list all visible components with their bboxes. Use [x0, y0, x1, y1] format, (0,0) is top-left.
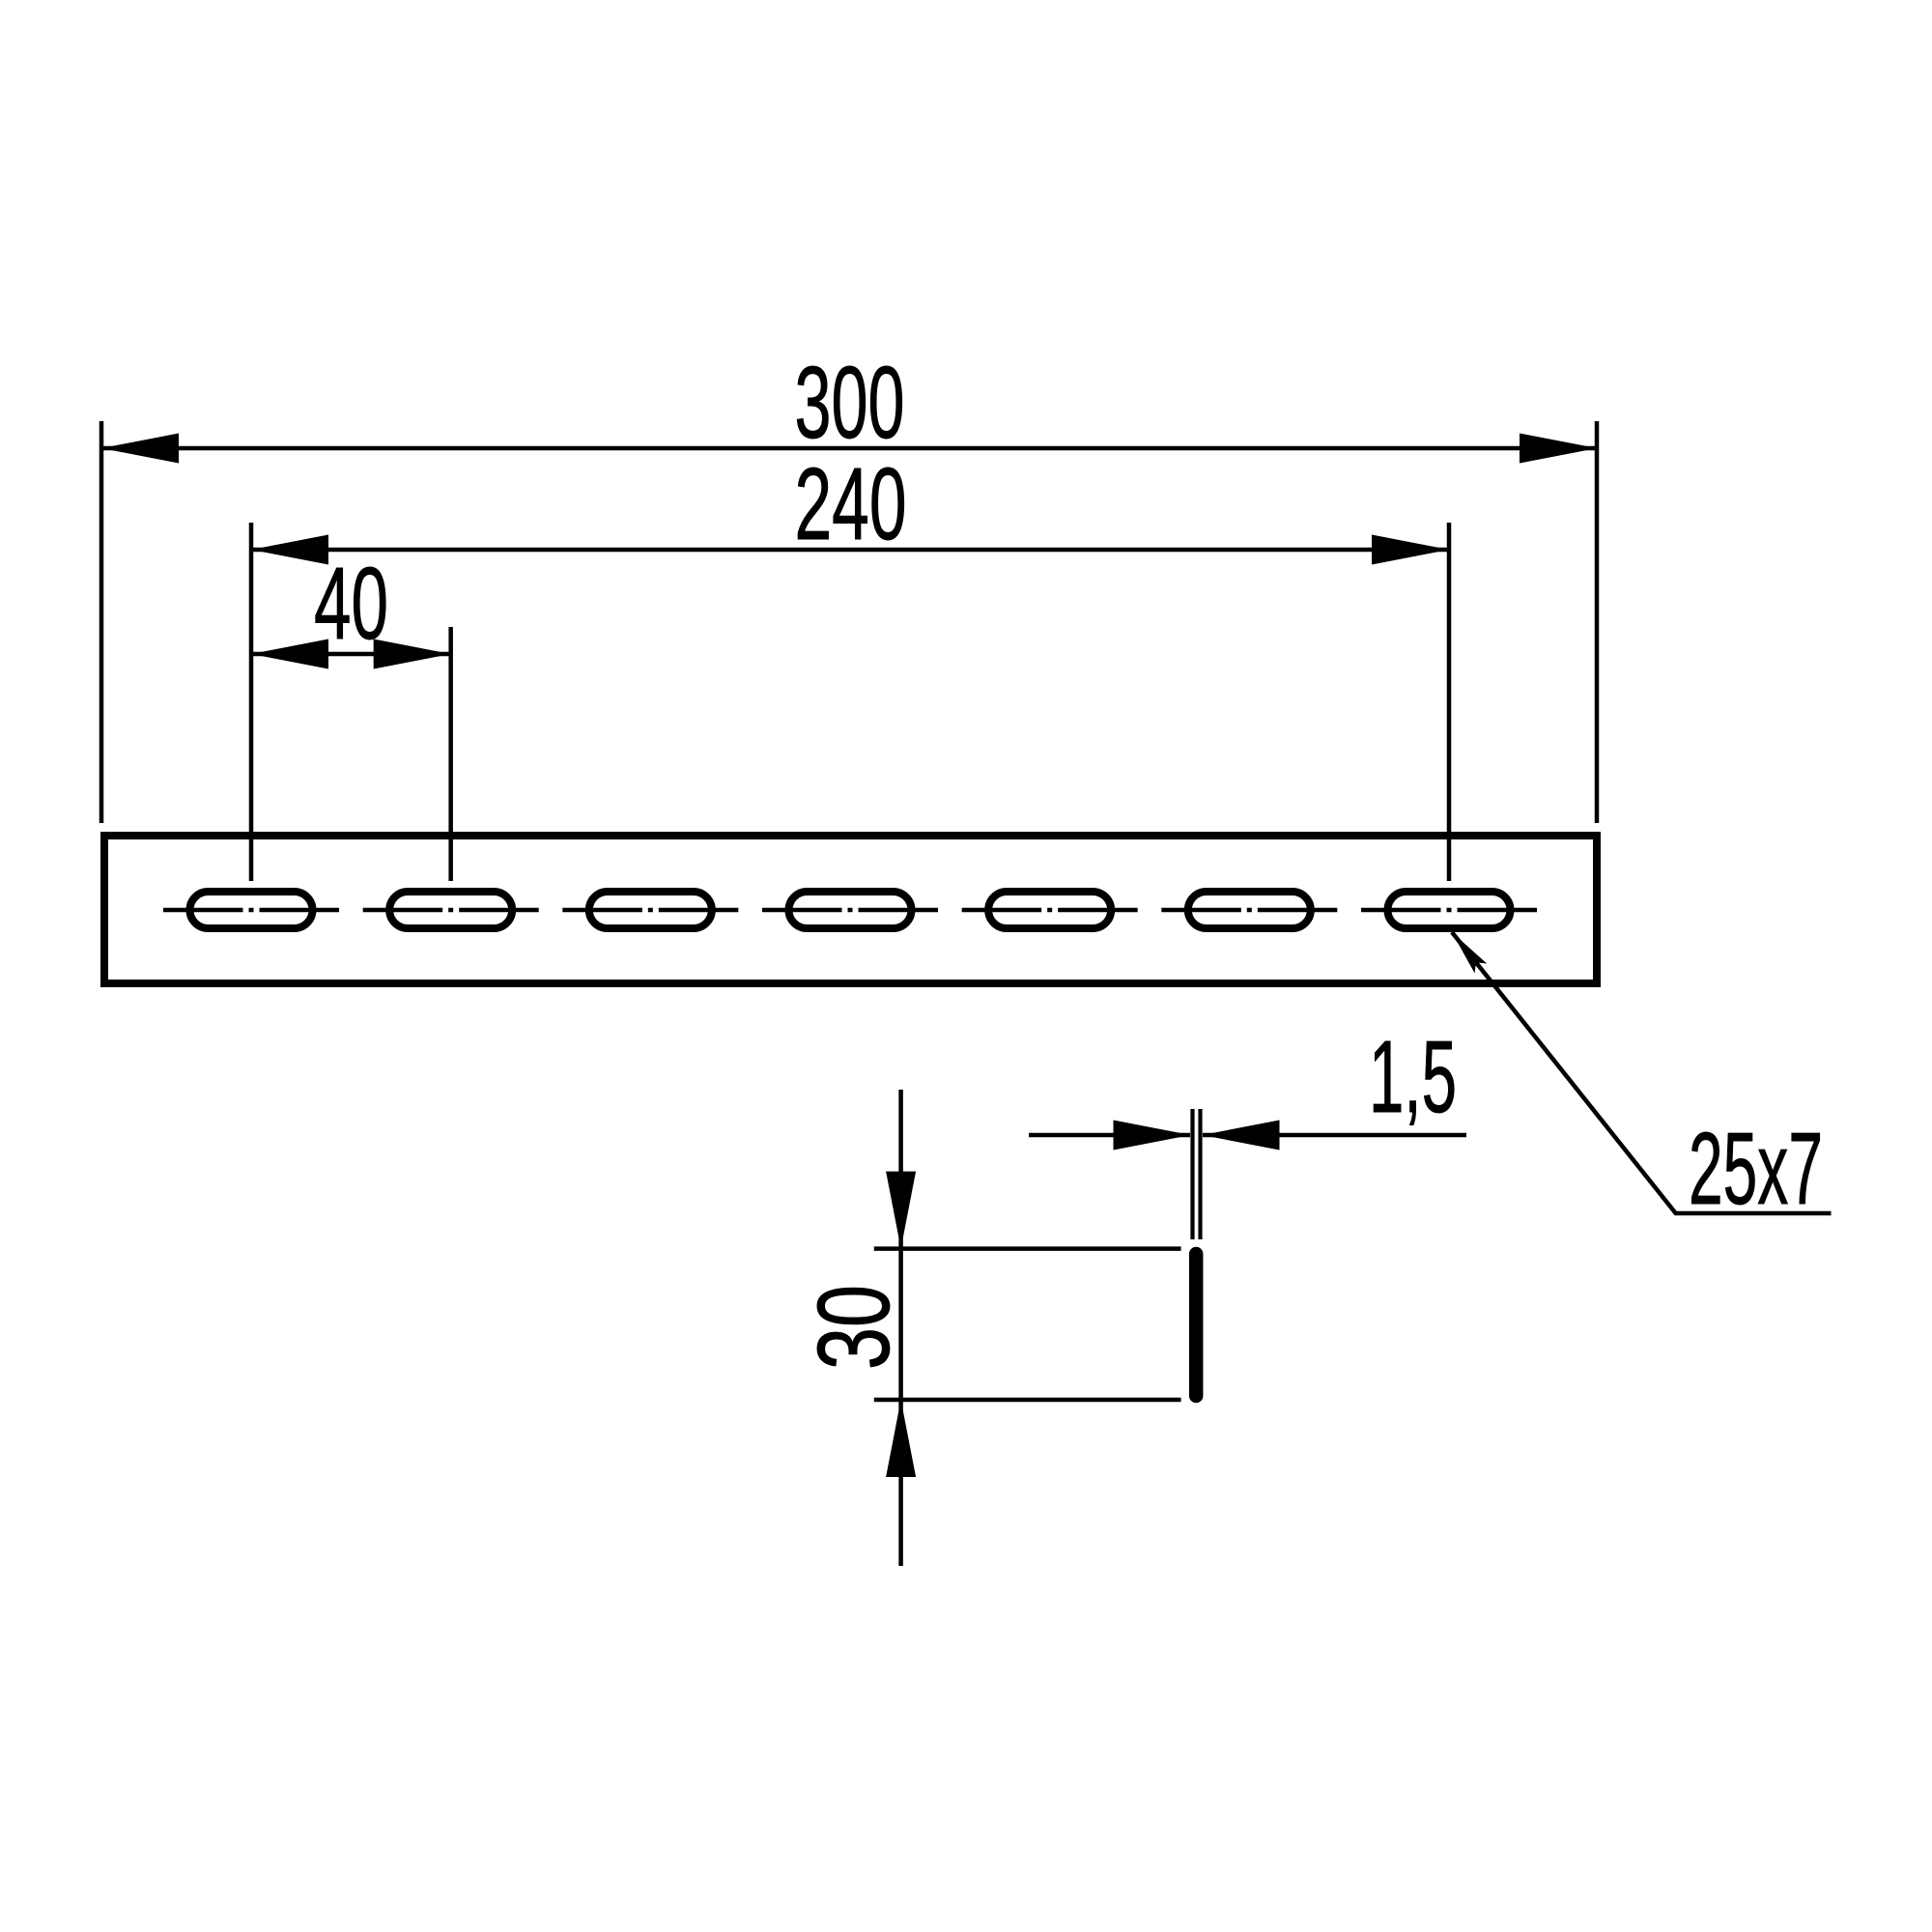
svg-text:30: 30 — [797, 1285, 911, 1370]
svg-text:1,5: 1,5 — [1369, 1020, 1457, 1134]
svg-text:40: 40 — [314, 547, 388, 661]
svg-text:25x7: 25x7 — [1689, 1112, 1823, 1226]
svg-text:240: 240 — [795, 447, 907, 561]
svg-text:300: 300 — [795, 346, 905, 460]
